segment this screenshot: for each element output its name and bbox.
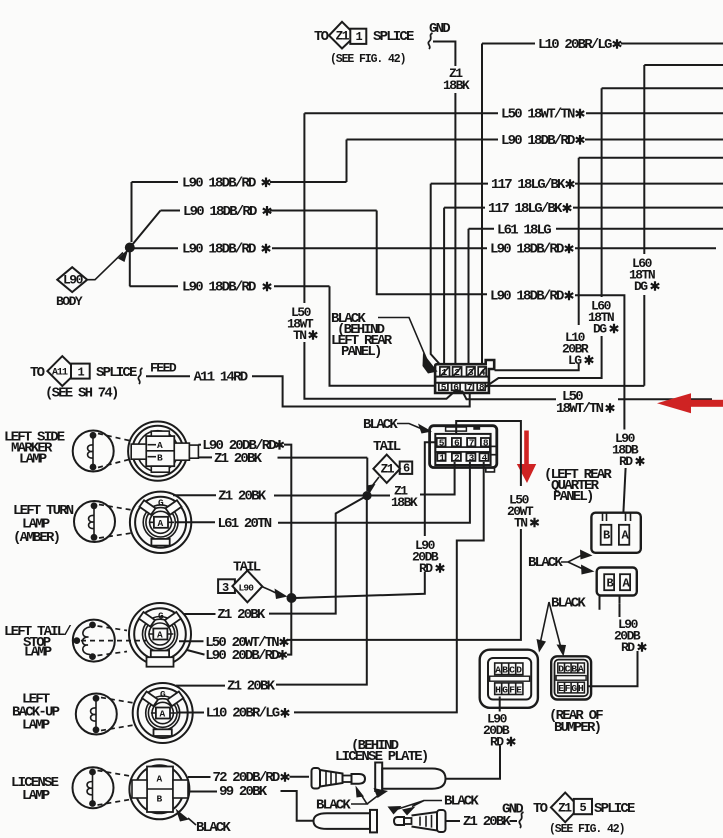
wire L90 quarter-panel branch x624 down to B/A connector <box>575 295 626 512</box>
svg-text:LG: LG <box>568 353 582 368</box>
label (BEHIND LICENSE PLATE) <box>335 738 428 765</box>
node junction dot (body L90) <box>125 243 135 287</box>
svg-text:L61 18LG: L61 18LG <box>497 222 551 238</box>
wire stub tail/stop B to label <box>187 650 205 655</box>
label L50 20WT TN* (x521) <box>507 493 539 531</box>
wire marker lamp Z1 elbow down to junction <box>278 458 368 491</box>
label L10 20BR LG* (x579) <box>562 330 593 368</box>
connector black 8-way TAIL <box>430 426 497 472</box>
svg-text:TO: TO <box>30 365 45 381</box>
wire Z1 branch diagonal to tail/stop lamp <box>269 496 367 614</box>
socket: left back-up <box>133 683 193 743</box>
svg-text:1: 1 <box>356 30 363 44</box>
ground symbol GND (bottom) <box>502 802 524 829</box>
wire stub tail/stop A to label <box>179 640 204 642</box>
socket: license <box>129 759 189 819</box>
wire 117 18LG/BK row 1 (y183.6) corner x431 to pin 1 <box>431 184 723 365</box>
svg-text:TO: TO <box>314 29 329 45</box>
svg-text:GND: GND <box>429 21 450 37</box>
svg-text:Z1 20BK: Z1 20BK <box>217 607 266 623</box>
node junction dot Z1 (x367,y495.6) <box>362 491 371 500</box>
label L50 18WT/TN* (right, y399) <box>556 389 614 417</box>
svg-text:3: 3 <box>222 581 229 595</box>
svg-text:L90 20DB/RD: L90 20DB/RD <box>205 648 279 664</box>
svg-text:L90 18DB/RD: L90 18DB/RD <box>183 204 257 220</box>
svg-text:DG: DG <box>593 322 607 337</box>
svg-text:RD: RD <box>490 735 504 750</box>
label BLACK with two arrows to B/A connectors <box>528 550 595 575</box>
svg-text:(SEE FIG. 42): (SEE FIG. 42) <box>549 823 624 836</box>
wire stub license B to label <box>188 791 217 793</box>
wire L50 vertical x304 down to connector pin 6 and right to red arrow <box>304 113 712 399</box>
svg-text:TAIL: TAIL <box>373 439 401 455</box>
wire TAIL pin4 L10 down to back-up lamp <box>294 462 484 712</box>
red arrow pointing down at L50 20WT label <box>517 431 536 484</box>
wire Z1 20BK (license) to gnd <box>446 820 518 822</box>
wire stub marker A to label <box>198 444 201 446</box>
wire 117 18LG/BK row 2 (y207.6) corner x444 to pin 1 <box>444 208 723 365</box>
ground symbol GND (top) <box>428 21 450 49</box>
label L61 20TN <box>218 516 272 532</box>
socket: left tail/stop <box>129 603 191 667</box>
label L90 18DB/RD* (right row y140) <box>501 133 584 149</box>
socket: left side marker <box>128 422 198 481</box>
svg-text:RD: RD <box>419 561 433 576</box>
wire license 99 row elbow to lower housing <box>281 791 314 821</box>
label L90 18DB/RD* (right row y294) <box>490 289 573 305</box>
svg-text:BUMPER): BUMPER) <box>554 720 601 736</box>
svg-text:L10 20BR/LG: L10 20BR/LG <box>206 706 280 722</box>
svg-text:TO: TO <box>533 801 548 817</box>
wire TAIL pin2 Z1 18BK to junction <box>367 462 455 496</box>
svg-text:Z1: Z1 <box>558 800 572 815</box>
wire L61 18LG row (y229) corner x468.5 to pin 3 <box>469 229 723 365</box>
svg-text:L50 18WT/TN: L50 18WT/TN <box>501 107 575 123</box>
splice symbol Z1-5 (bottom) <box>533 793 635 836</box>
label 117 18LG/BK* (row 1) <box>491 177 574 193</box>
svg-text:BLACK: BLACK <box>316 798 351 814</box>
label BLACK (BEHIND LEFT REAR PANEL) with arrow <box>331 311 438 374</box>
label L60 18TN DG* (x644) <box>629 256 659 294</box>
label BLACK with V arrows to bumper connectors <box>537 596 587 657</box>
label (LEFT REAR QUARTER PANEL) <box>544 467 612 505</box>
label L90 18DB/RD * (left row 4) <box>182 280 271 296</box>
svg-text:L90: L90 <box>63 272 84 287</box>
label L90 18DB/RD* (left row 1) <box>182 176 270 192</box>
label L90 18DB/RD * (left row 3) <box>182 242 270 258</box>
wire Z1 vertical from junction to back-up lamp <box>276 496 367 685</box>
wire L50 18WT/TN row (y113) from x304 to right edge <box>304 112 723 114</box>
svg-text:L90 18DB/RD: L90 18DB/RD <box>182 280 256 296</box>
svg-text:L61 20TN: L61 20TN <box>218 516 272 532</box>
wire L60 lower branch y385.7 from pin 8 to x644 <box>486 385 644 387</box>
wire L90 row 3 (y248) from body junction to far right <box>133 247 716 249</box>
splice symbol A11-1 FEED <box>30 356 177 401</box>
label A11 14RD <box>194 370 248 386</box>
wire L90 row 4 (y286) corner x329.5 down to pin 5 <box>130 286 437 386</box>
wire tail/stop G to Z1 row <box>184 613 216 615</box>
wire turn Z1 row right segment to junction <box>274 495 363 497</box>
connector ABCD/HGFE (license) <box>480 650 538 708</box>
svg-text:BLACK: BLACK <box>196 820 231 836</box>
wire license 72 row to socket housing <box>290 776 310 778</box>
wire L10 20BR/LG row (y44) to right edge, corner down to pin 4 <box>482 44 723 365</box>
label L90 20DB RD* (x625 under B/A) <box>614 617 646 655</box>
svg-text:BLACK: BLACK <box>444 794 479 810</box>
svg-text:(SEE FIG. 42): (SEE FIG. 42) <box>330 53 405 66</box>
svg-text:18BK: 18BK <box>443 78 470 93</box>
wire stub back-up A to label <box>177 712 204 714</box>
label L60 18TN DG* (x602) <box>588 299 618 337</box>
wire L90 20DB RD from housing to ABCD label <box>446 746 501 779</box>
label Z1 20BK (turn) <box>218 489 267 505</box>
connector DCBA/EFGH (rear of bumper) <box>551 656 591 699</box>
wire A11 14RD feed to pin 7 <box>146 376 470 406</box>
bulb: left tail/stop (dual filament) <box>73 620 146 662</box>
svg-text:18WT/TN: 18WT/TN <box>556 401 604 417</box>
svg-text:SPLICE: SPLICE <box>96 365 137 381</box>
svg-text:L90 18DB/RD: L90 18DB/RD <box>490 242 564 258</box>
wire L90 row 2 (y210.5) diagonal to junction, corner x376.7 down <box>132 211 487 295</box>
wire B/A lower A to L90 label to rear bumper connector <box>588 603 638 686</box>
node junction dot L90 TAIL (x291.5,y598) <box>287 593 297 603</box>
svg-text:L10 20BR/LG: L10 20BR/LG <box>538 37 612 53</box>
label LEFT TURN LAMP (AMBER) <box>13 503 74 546</box>
svg-text:Z1: Z1 <box>381 462 395 477</box>
svg-text:FEED: FEED <box>150 361 177 376</box>
svg-text:L90 18DB/RD: L90 18DB/RD <box>501 133 575 149</box>
svg-text:PANEL): PANEL) <box>341 344 381 360</box>
svg-text:BLACK: BLACK <box>363 417 398 433</box>
license lamp socket plug (upper) <box>312 768 366 789</box>
wire TAIL pin6 L50 up-over-down to bottom <box>288 421 521 640</box>
svg-text:LAMP: LAMP <box>22 788 50 804</box>
svg-text:A11 14RD: A11 14RD <box>194 370 248 386</box>
svg-text:L90 18DB/RD: L90 18DB/RD <box>490 289 564 305</box>
svg-text:5: 5 <box>580 801 587 815</box>
label 72 20DB/RD* (license) <box>213 770 290 786</box>
svg-text:B: B <box>607 577 614 591</box>
svg-text:TN: TN <box>293 328 306 343</box>
label L50 20WT/TN* <box>205 635 288 651</box>
label (REAR OF BUMPER) <box>549 708 603 736</box>
svg-text:SPLICE: SPLICE <box>373 29 414 45</box>
svg-text:TN: TN <box>514 516 527 531</box>
splice symbol L90 BODY diamond <box>56 249 129 310</box>
license lamp housing tube (upper) <box>375 763 445 792</box>
wire TAIL pin3 L61 to turn lamp <box>278 462 470 523</box>
wire marker lamp L90 elbow down to tail/stop lamp <box>284 445 291 655</box>
svg-text:SPLICE: SPLICE <box>594 801 635 817</box>
socket: left turn <box>130 492 191 553</box>
svg-text:(AMBER): (AMBER) <box>13 530 60 546</box>
svg-text:LAMP: LAMP <box>24 645 52 661</box>
svg-text:PANEL): PANEL) <box>553 489 593 505</box>
label L90 20DB RD* (x425) <box>412 538 444 576</box>
label Z1 18BK (mid) <box>391 484 418 511</box>
svg-text:LAMP: LAMP <box>22 718 50 734</box>
label Z1 18BK (top) <box>443 66 470 93</box>
bulb: left turn <box>74 501 132 542</box>
label L90 20DB/RD* (tail/stop) <box>205 648 286 664</box>
svg-text:A11: A11 <box>52 368 68 379</box>
label BLACK (license lower) with V arrows <box>388 794 480 816</box>
svg-text:BLACK: BLACK <box>528 555 563 571</box>
bulb: left side marker <box>73 431 129 472</box>
svg-text:6: 6 <box>403 462 410 476</box>
wire L10 branch (y158) to right edge, vertical x579 to connector notch <box>495 158 723 371</box>
red arrow pointing left at L50 wire <box>657 393 723 413</box>
label BLACK (tail connector) with arrow <box>363 417 432 434</box>
bulb: license <box>73 767 131 808</box>
label BLACK (license upper) with V arrows <box>316 786 388 814</box>
label L10 20BR/LG* (back-up) <box>206 706 289 722</box>
bulb: left back-up <box>76 694 134 735</box>
label Z1 20BK (back-up) <box>227 678 276 694</box>
svg-text:L90 18DB/RD: L90 18DB/RD <box>182 242 256 258</box>
wire L60 branch (y89) to right edge, vertical x602 to pin 8 <box>485 88 723 387</box>
wire stub license A to label <box>188 776 211 778</box>
label LICENSE LAMP <box>11 775 59 804</box>
svg-text:BLACK: BLACK <box>551 596 586 612</box>
wire TAIL pin5 L90 left-down to junction dot <box>295 442 437 598</box>
label Z1 20BK (tail/stop) <box>217 607 266 623</box>
svg-text:117 18LG/BK: 117 18LG/BK <box>488 201 563 217</box>
svg-text:BODY: BODY <box>56 294 83 309</box>
svg-text:1: 1 <box>78 366 85 380</box>
wire Z1 18BK: gnd to connector pin 2 <box>433 42 455 365</box>
connector B/A lower <box>597 568 637 610</box>
label Z1 20BK (marker) <box>214 451 263 467</box>
wire L90 row 1 (y182) from left elbow to corner x346 <box>132 182 347 242</box>
wire stub ABCD to L90 label <box>499 697 501 712</box>
label LEFT TAIL/ STOP LAMP <box>4 624 71 661</box>
label L90 18DB RD* (x624) <box>612 431 644 469</box>
svg-text:LAMP: LAMP <box>19 452 47 468</box>
wire stub turn A to label <box>175 521 216 523</box>
wire stub marker B to label <box>198 456 212 458</box>
label 117 18LG/BK* (row 2) <box>488 201 571 217</box>
label L50 18WT/TN* (right row y113) <box>501 107 584 123</box>
svg-text:RD: RD <box>621 640 635 655</box>
svg-text:(SEE SH 74): (SEE SH 74) <box>45 386 118 402</box>
splice symbol TAIL 3-L90 with arrow to dot <box>218 560 287 603</box>
connector black 8-way (behind left rear panel) <box>435 360 494 393</box>
label L61 18LG <box>497 222 551 238</box>
svg-text:18BK: 18BK <box>391 495 418 510</box>
svg-text:Z1: Z1 <box>336 29 350 44</box>
label 99 20BK (license) <box>219 784 268 800</box>
connector B/A upper (left rear quarter panel) <box>591 513 640 553</box>
label L50 18WT TN* (mid vertical x304) <box>287 305 317 343</box>
label L10 20BR/LG* (top row) <box>538 37 621 53</box>
svg-text:Z1 20BK: Z1 20BK <box>218 489 267 505</box>
svg-text:B: B <box>603 529 610 543</box>
label L90 18DB/RD* (right row 3) <box>490 242 573 258</box>
label L90 20DB RD* (under ABCD) <box>483 712 515 750</box>
license lamp housing tube (lower) <box>314 810 378 833</box>
svg-text:DG: DG <box>634 279 648 294</box>
svg-text:L90: L90 <box>239 583 255 594</box>
splice symbol Z1-1 (top) <box>314 22 414 66</box>
svg-text:GND: GND <box>502 802 523 818</box>
label L90 20DB/RD* (marker) <box>202 438 283 454</box>
license socket plug (lower) <box>394 810 446 832</box>
label TAIL with splice symbol Z1-6 <box>367 439 413 495</box>
svg-text:Z1 20BK: Z1 20BK <box>227 678 276 694</box>
svg-text:99 20BK: 99 20BK <box>219 784 268 800</box>
svg-text:117 18LG/BK: 117 18LG/BK <box>491 177 566 193</box>
svg-text:L90 18DB/RD: L90 18DB/RD <box>182 176 256 192</box>
svg-text:Z1 20BK: Z1 20BK <box>214 451 263 467</box>
wire L90 18DB/RD row (y140) from corner x346 to right edge <box>347 140 723 183</box>
wire back-up G to Z1 row <box>176 685 225 687</box>
label LEFT BACK-UP LAMP <box>12 692 60 734</box>
wire L60 branch (y65) to right edge, vertical x644 <box>644 65 723 386</box>
label L90 18DB/RD* (left row 2) <box>183 204 271 220</box>
wire turn G to Z1 row <box>173 494 216 496</box>
svg-text:RD: RD <box>619 454 633 469</box>
label BLACK (license socket) with arrow <box>176 809 232 837</box>
label LEFT SIDE MARKER LAMP <box>4 430 65 468</box>
label Z1 20BK (license bottom) <box>463 814 512 830</box>
